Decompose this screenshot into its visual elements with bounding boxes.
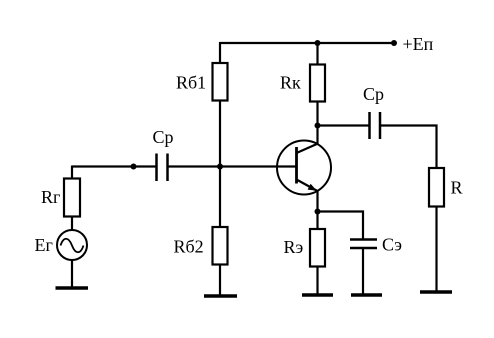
wire Ег bottom lead (71, 260, 73, 288)
svg-text:Сэ: Сэ (382, 235, 402, 255)
wire emitter lead (316, 191, 318, 212)
node supply junction (315, 40, 321, 46)
resistor Rб2 (213, 227, 228, 265)
wire Rк top lead (316, 43, 318, 65)
ground Rэ (302, 293, 333, 297)
wire input from source corner to capacitor (72, 165, 157, 167)
ground Ег (56, 286, 89, 290)
resistor R (429, 168, 444, 207)
svg-text:Ср: Ср (153, 127, 174, 147)
wire Rг top lead (71, 166, 73, 179)
wire Rб1 top lead (219, 42, 221, 63)
node base (217, 164, 223, 170)
wire Rэ bottom lead (316, 267, 318, 296)
node collector (315, 123, 321, 129)
svg-text:Rб1: Rб1 (176, 73, 206, 93)
wire Rб1 bottom lead to base node (219, 101, 221, 167)
wire Rб2 bottom lead (219, 265, 221, 297)
resistor Rэ (310, 229, 325, 267)
svg-text:Rэ: Rэ (284, 237, 304, 257)
capacitor Сэ (350, 240, 377, 249)
wire emitter node to Сэ (318, 212, 364, 240)
resistor Rб1 (213, 63, 228, 101)
ground Rб2 (204, 294, 237, 298)
svg-text:Rг: Rг (41, 187, 60, 207)
wire base node to Rб2 (219, 167, 221, 228)
wire Сэ bottom lead (362, 248, 364, 295)
svg-text:+Еп: +Еп (403, 34, 434, 54)
node input (131, 164, 137, 170)
wire Rг to Ег (71, 217, 73, 231)
resistor Rк (310, 65, 325, 102)
node emitter (315, 209, 321, 215)
wire top supply rail (220, 42, 395, 44)
svg-text:Rк: Rк (280, 73, 301, 93)
svg-text:Rб2: Rб2 (174, 237, 204, 257)
wire output capacitor to load R (380, 126, 437, 169)
wire input capacitor to transistor base (168, 165, 297, 167)
resistor Rг (64, 179, 80, 217)
wire collector node to output capacitor (318, 124, 370, 126)
ground Сэ (351, 293, 382, 297)
svg-text:R: R (451, 178, 463, 198)
svg-text:Ег: Ег (35, 235, 53, 255)
wire R bottom lead (435, 207, 437, 293)
wire Rк bottom lead to collector node (316, 102, 318, 145)
wire emitter node to Rэ (316, 212, 318, 230)
node +Еп terminal (391, 40, 397, 46)
ground R (420, 290, 452, 294)
source Ег (57, 230, 87, 260)
transistor VT (277, 141, 331, 195)
capacitor Ср output (370, 112, 381, 139)
capacitor Ср input (157, 154, 168, 182)
svg-text:Ср: Ср (363, 84, 384, 104)
